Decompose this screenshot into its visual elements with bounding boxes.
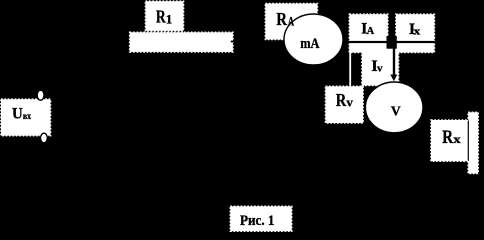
label RA text <box>276 9 294 29</box>
terminal (top) of Uвх <box>37 90 44 100</box>
white sliver line left of Iv box <box>349 43 351 86</box>
svg-text:Рис. 1: Рис. 1 <box>240 213 274 229</box>
label box Rv <box>326 86 364 123</box>
svg-text:R: R <box>442 128 454 148</box>
svg-text:A: A <box>367 26 375 37</box>
label box RA <box>265 4 317 40</box>
svg-text:v: v <box>377 63 383 75</box>
label box Iv <box>362 49 399 86</box>
svg-text:1: 1 <box>166 12 173 27</box>
label box R1 <box>146 1 184 31</box>
svg-text:v: v <box>346 95 353 110</box>
wire tick at right end of R1 <box>231 41 234 43</box>
svg-text:A: A <box>288 14 295 29</box>
vertical wire with arrow to voltmeter <box>390 43 397 81</box>
svg-text:R: R <box>336 90 347 110</box>
svg-text:V: V <box>391 104 401 119</box>
svg-text:вх: вх <box>23 111 32 121</box>
svg-text:x: x <box>453 132 461 146</box>
terminal (bottom) of Uвх <box>41 133 48 143</box>
source Uвх box <box>1 99 51 136</box>
voltmeter V <box>365 82 423 133</box>
label box Ix <box>396 14 435 52</box>
svg-text:R: R <box>276 9 288 29</box>
label box IA <box>349 14 388 52</box>
resistor Rx body <box>468 112 478 173</box>
horizontal wire through IA and Ix <box>348 41 436 43</box>
seam between Rx label and Rx body <box>468 121 469 161</box>
svg-text:mA: mA <box>300 36 320 52</box>
svg-text:R: R <box>156 7 166 27</box>
wire junction between IA and Ix <box>387 36 397 49</box>
resistor R1 body <box>130 32 233 52</box>
milliammeter mA <box>284 14 343 65</box>
caption box Рис. 1 <box>230 206 291 231</box>
svg-text:x: x <box>414 25 421 37</box>
svg-text:U: U <box>12 106 23 123</box>
label box Rx <box>431 120 468 161</box>
